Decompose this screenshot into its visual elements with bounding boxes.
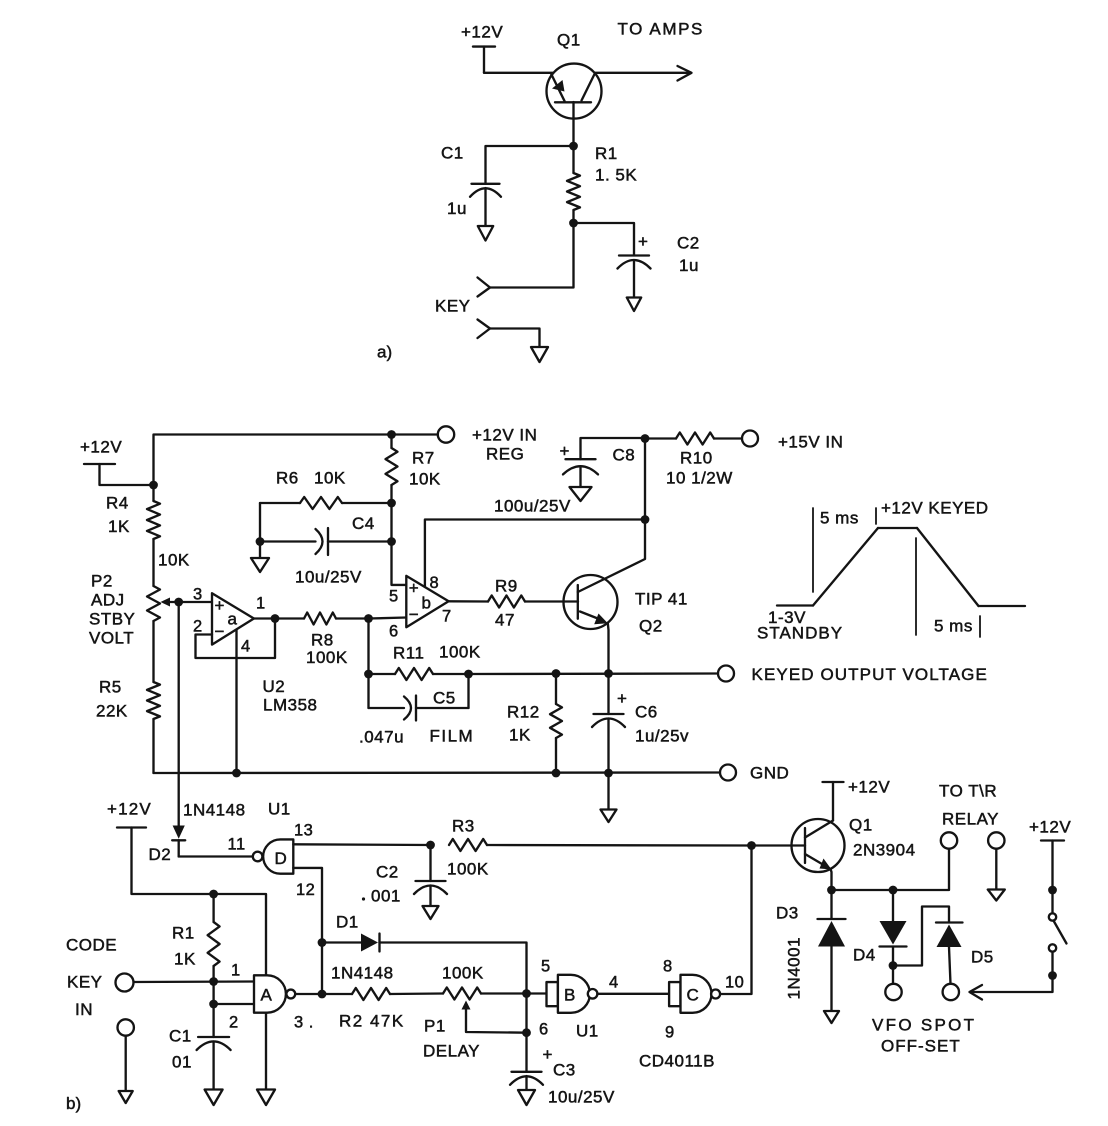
svg-text:+12V IN: +12V IN [472,426,537,445]
diode D5 [936,921,963,923]
svg-text:7: 7 [442,608,452,626]
svg-text:C8: C8 [613,446,636,465]
wire +12V to Q1 emitter [484,72,553,74]
svg-text:9: 9 [665,1024,675,1042]
wire R7/C4 junction down to op-amp pin 5 [392,542,407,585]
wire left rail top (R4 top to +12V IN REG rail) [154,435,440,486]
svg-text:D3: D3 [776,904,799,923]
node +12V / R1 [209,890,218,899]
svg-text:12: 12 [296,881,315,899]
wire pin6 node down to R11/C5 [367,619,369,709]
svg-text:+15V IN: +15V IN [778,433,843,452]
capacitor C4 10u/25V [327,528,329,555]
switch blade [1054,922,1067,944]
svg-text:D: D [275,849,287,868]
svg-text:100K: 100K [447,860,489,879]
svg-text:IN: IN [75,1000,93,1019]
svg-text:RELAY: RELAY [942,810,999,829]
ground below C6 node [601,810,617,823]
svg-text:FILM: FILM [430,727,475,746]
wire node to C1 [486,146,574,184]
terminal KEY IN [116,974,134,992]
wire gate D pin 13 to R3/C2 rail [293,843,430,846]
node +12V / R4 top [149,481,158,490]
node pin8 wire / collector line [641,515,650,524]
resistor R5 22K [147,682,160,719]
wire relay 2 to ground [995,849,997,890]
svg-text:R12: R12 [507,703,540,722]
node D1 branch [318,938,327,947]
svg-text:1K: 1K [108,517,130,536]
svg-text:001: 001 [371,887,401,906]
svg-text:6: 6 [389,623,399,641]
svg-text:D1: D1 [336,913,359,932]
svg-text:D4: D4 [853,946,876,965]
svg-text:a: a [228,610,238,629]
node R1/C2/KEY [569,219,578,228]
terminal TO T\R RELAY 1 [941,832,957,848]
KEY chevron 1 [478,278,491,297]
svg-text:10K: 10K [158,551,190,570]
svg-text:−: − [409,605,419,624]
svg-text:GND: GND [750,764,789,783]
terminal below KEY IN [118,1019,134,1035]
waveform: falling edge [917,528,979,606]
svg-text:4: 4 [609,974,619,992]
ground below D3 [824,1011,839,1023]
wire R5 bottom to GND rail [152,719,154,773]
switch contact bottom [1049,944,1056,951]
svg-text:10u/25V: 10u/25V [548,1088,615,1107]
node C2/R3 [426,841,435,850]
svg-text:R8: R8 [311,631,334,650]
node rail/D4 [889,886,898,895]
transistor Q1 (part a, PNP) [547,64,602,119]
node rail/R12 [552,669,561,678]
svg-text:8: 8 [430,574,440,592]
wire op-amp a feedback loop (pin 2 to output) [196,619,276,658]
svg-text:C1: C1 [169,1027,192,1046]
wire op-amp a pin 4 to GND rail [235,630,237,774]
resistor R1 1.5K (part a) [572,146,574,173]
svg-text:1u/25v: 1u/25v [635,727,689,746]
wire node to gate B [527,992,547,994]
wire Q1 collector TO AMPS with arrow [595,72,690,74]
svg-text:2: 2 [229,1014,239,1032]
svg-text:R1: R1 [172,924,195,943]
svg-text:2: 2 [193,618,203,636]
svg-text:P1: P1 [424,1017,446,1036]
svg-text:A: A [261,986,273,1005]
svg-text:Q1: Q1 [557,31,581,50]
svg-text:U1: U1 [268,800,291,819]
transistor Q2 TIP 41 [564,575,618,629]
node P2 wiper [174,598,183,607]
wire keyed output rail [469,672,718,675]
wire R1 node down to pin 2 node [212,982,214,1005]
svg-text:100K: 100K [442,964,484,983]
svg-text:1: 1 [231,962,241,980]
svg-text:1K: 1K [174,950,196,969]
svg-text:1: 1 [256,595,266,613]
svg-text:01: 01 [172,1053,192,1072]
resistor R12 1K [555,674,557,705]
svg-text:U2: U2 [263,677,286,696]
node top rail / R7 [387,430,396,439]
svg-text:C4: C4 [352,514,375,533]
waveform tick right [979,616,981,637]
wire KEY return to ground [490,329,540,348]
wire D2 to gate D output [179,855,253,857]
resistor R9 47 [488,596,525,608]
svg-text:3 .: 3 . [294,1014,314,1032]
node base/C1/R1 [569,142,578,151]
NAND gate U1-B [547,982,558,1006]
node R11/C5 left junction [364,670,373,679]
node Q1 emitter / rail [827,886,836,895]
svg-text:8: 8 [663,958,673,976]
svg-text:C3: C3 [553,1061,576,1080]
svg-text:R7: R7 [412,449,435,468]
svg-text:.047u: .047u [359,728,404,747]
svg-text:b: b [422,594,431,613]
svg-text:R1: R1 [595,144,618,163]
capacitor C1 (part a) 1u [472,183,500,185]
svg-text:P2: P2 [91,572,113,591]
svg-text:U1: U1 [576,1022,599,1041]
svg-text:1N4001: 1N4001 [785,937,804,1000]
KEY chevron 2 [478,320,491,339]
resistor R1 1K (logic) [212,894,214,922]
svg-text:R5: R5 [99,678,122,697]
waveform tick middle [915,538,917,635]
wire KEY IN to gate A pin 1 [134,980,255,983]
node pin4/GND rail [232,769,241,778]
svg-text:+: + [215,596,225,615]
node C6/GND rail [604,769,613,778]
svg-text:1u: 1u [679,256,699,275]
svg-text:−: − [215,622,225,641]
svg-text:5: 5 [389,588,399,606]
ground below C8 [570,487,592,501]
terminal KEYED OUTPUT VOLTAGE [718,666,734,682]
svg-text:KEY: KEY [435,297,471,316]
svg-text:3: 3 [193,586,203,604]
svg-text:REG: REG [486,445,524,464]
transistor Q1 2N3904 [792,819,845,872]
svg-text:CD4011B: CD4011B [639,1052,715,1071]
wire node down to pin8 node [644,439,646,520]
svg-text:R11: R11 [393,644,424,663]
terminal VFO [885,984,901,1000]
svg-text:STANDBY: STANDBY [757,624,843,643]
svg-text:R4: R4 [106,494,129,513]
svg-text:+: + [638,232,648,251]
NAND gate U1-A [254,975,286,1012]
svg-text:STBY: STBY [89,610,135,629]
node C8/R10/collector [641,434,650,443]
svg-text:+12V: +12V [107,800,152,819]
svg-text:6: 6 [539,1021,549,1039]
capacitor C6 1u/25v [607,674,609,715]
svg-text:C1: C1 [441,144,464,163]
diode D1 1N4148 [322,941,361,943]
svg-text:+12V: +12V [1029,818,1071,837]
waveform: top flat +12V keyed [878,527,917,529]
ground below C2 (part a) [627,298,641,312]
svg-text:C6: C6 [635,703,658,722]
svg-text:100u/25V: 100u/25V [494,497,571,516]
svg-text:1N4148: 1N4148 [331,964,394,983]
wire R6 left / C4 left / ground [259,503,261,542]
svg-text:OFF-SET: OFF-SET [881,1037,961,1056]
svg-text:5 ms: 5 ms [934,617,973,636]
terminal TO T\R RELAY 2 [988,832,1004,848]
wire R4 to P2 [152,539,154,586]
svg-text:a): a) [377,343,392,362]
svg-text:LM358: LM358 [263,696,317,715]
wire wiper to op-amp pin 3 [179,601,212,603]
svg-text:Q2: Q2 [639,617,663,636]
svg-text:C2: C2 [677,234,700,253]
ground below C1 (part a) [478,226,493,241]
capacitor C3 10u/25V [525,1033,527,1072]
svg-text:TO AMPS: TO AMPS [618,20,704,39]
wire R3 to Q1 base [487,844,752,847]
svg-text:Q1: Q1 [849,816,873,835]
svg-text:+: + [560,442,570,461]
svg-text:R3: R3 [452,817,475,836]
svg-text:+12V: +12V [80,438,122,457]
wire D4 node staircase to D5 anode-top [893,907,949,966]
terminal SPOT [943,984,959,1000]
svg-text:ADJ: ADJ [91,591,125,610]
terminal +12V IN REG [438,426,454,442]
svg-text:100K: 100K [306,648,348,667]
svg-text:B: B [564,986,575,1005]
wire gate B output to gate C [597,993,669,995]
ground below C3 [518,1090,535,1105]
wire D4 node to VFO terminal [892,966,894,985]
wire pin 2 stub [214,1003,254,1005]
wire gate D pin 12 down to gate A output [293,868,322,943]
diode D2 1N4148 (from P2 wiper line) [178,826,180,828]
node on switch output [1048,971,1057,980]
svg-text:+12V KEYED: +12V KEYED [881,499,989,518]
ground below KEY terminal [119,1091,133,1103]
wire emitter rail to relay [832,849,950,890]
waveform: rising edge [813,528,878,606]
svg-text:10 1/2W: 10 1/2W [666,469,733,488]
wire op-amp b pin 8 up and right to C8 node [425,520,645,588]
svg-text:+12V: +12V [461,23,503,42]
wire gate A VDD riser already drawn; gate A VSS to ground [265,1013,267,1090]
resistor R3 100K [449,839,487,851]
node C4/R7 [387,537,396,546]
svg-text:TIP 41: TIP 41 [635,590,688,609]
svg-text:10K: 10K [314,469,346,488]
resistor R10 10 1/2W [676,433,714,445]
svg-text:DELAY: DELAY [423,1042,480,1061]
op-amp U2b [406,576,448,627]
ground below relay 2 [988,890,1005,901]
terminal +15V IN [742,431,758,447]
decimal point before 001 [362,897,365,900]
diode D4 [892,890,894,921]
svg-text:10: 10 [725,974,744,992]
capacitor C5 .047u FILM [369,707,405,709]
node R6/C4 left junction [256,537,265,546]
svg-text:10K: 10K [409,470,441,489]
node R11/C5/keyed rail [464,670,473,679]
svg-text:5: 5 [541,958,551,976]
ground below C2 [423,906,439,919]
wire gate A output to node [295,993,322,995]
wire Q1 base to node [572,102,574,146]
svg-text:D5: D5 [971,948,994,967]
waveform tick left [812,508,814,592]
svg-text:KEYED OUTPUT VOLTAGE: KEYED OUTPUT VOLTAGE [752,665,988,684]
diode D3 1N4001 [830,890,832,919]
svg-text:C2: C2 [376,863,399,882]
NAND gate U1-D (mirrored) [263,839,293,873]
svg-text:100K: 100K [439,643,481,662]
svg-text:VFO SPOT: VFO SPOT [872,1016,976,1035]
node R1/key wire [209,977,218,986]
resistor R6 10K [260,502,300,504]
svg-text:VOLT: VOLT [89,629,134,648]
arrow pointing to SPOT terminal [970,985,983,1000]
node P1 wiper / C3 [522,1028,531,1037]
svg-text:R6: R6 [276,469,299,488]
wire to op-amp pin 6 [369,618,407,619]
resistor R2 47K [322,993,352,995]
node output a / feedback [271,614,280,623]
svg-text:+: + [617,689,627,708]
node D4 cathode [889,961,898,970]
svg-text:CODE: CODE [66,936,117,955]
svg-text:D2: D2 [149,845,172,864]
ground below R6/C4 [251,558,269,572]
svg-text:1N4148: 1N4148 [183,801,246,820]
svg-text:C: C [687,986,699,1005]
svg-text:1u: 1u [447,199,467,218]
svg-text:10u/25V: 10u/25V [295,568,362,587]
ground below gate A [257,1090,275,1106]
wire C6 node to ground arrow [607,773,609,810]
svg-text:+: + [409,579,419,598]
svg-text:C5: C5 [433,689,456,708]
switch contact top [1049,913,1056,920]
wire terminal to ground [125,1036,127,1091]
svg-text:22K: 22K [96,702,128,721]
svg-text:R10: R10 [680,449,713,468]
node R12/GND rail [552,769,561,778]
node R6/R7 [387,499,396,508]
node rail/Q2 emitter/C6 [604,669,613,678]
node on switch feed [1048,886,1057,895]
node R8 / pin 6 / R11 [364,614,373,623]
wire gate C output up to Q1 base node [720,846,751,995]
svg-text:5 ms: 5 ms [820,509,859,528]
svg-text:b): b) [66,1094,81,1113]
potentiometer P2 10K ADJ STBY VOLT [147,586,160,621]
ground below KEY return [531,347,548,362]
svg-text:TO T\R: TO T\R [939,782,997,801]
waveform tick at peak start [875,508,877,524]
wire op-amp b output to R9 [449,600,488,603]
resistor R8 100K [304,613,336,625]
svg-text:+12V: +12V [848,778,890,797]
node R3 wire / gate C riser / Q1 base [747,841,756,850]
wire KEY input to R1 bottom [490,223,574,288]
wire Q1 base from node [752,844,806,846]
wire op-amp a output [254,617,304,619]
svg-text:R9: R9 [495,577,518,596]
capacitor C1 01 (logic) [212,1004,214,1037]
resistor R7 10K [390,435,392,449]
svg-text:KEY: KEY [67,973,103,992]
wire switch to arrow [971,952,1053,992]
op-amp U2a [212,593,254,644]
wire GND rail [154,771,720,774]
potentiometer P1 100K DELAY [443,988,481,1000]
svg-text:13: 13 [294,822,313,840]
resistor R4 1K [152,485,154,501]
node D1/R2/P1/gate B input [522,989,531,998]
wire D1 to RC node [380,943,527,994]
node gate A output / pin 12 riser / R2 [318,990,327,999]
svg-text:1K: 1K [509,726,531,745]
svg-text:R2 47K: R2 47K [339,1012,405,1031]
terminal GND [720,765,736,781]
svg-text:4: 4 [241,638,251,656]
waveform: standby baseline left [777,604,813,606]
NAND gate U1-C [669,982,680,1006]
resistor R11 100K (feedback) [369,673,396,675]
ground below C1 (logic) [205,1090,223,1106]
wire node to C2 [574,223,635,256]
wire P2 to R5 [152,621,154,682]
node pin2/C1 [209,1000,218,1009]
svg-text:47: 47 [495,611,515,630]
svg-text:+: + [543,1045,553,1064]
wire wiper down to D2 (keying line) [178,602,180,826]
svg-text:1. 5K: 1. 5K [595,166,637,185]
svg-text:2N3904: 2N3904 [853,841,916,860]
waveform: baseline right [979,605,1026,607]
svg-text:11: 11 [228,836,246,854]
capacitor C2 001 [429,845,431,881]
